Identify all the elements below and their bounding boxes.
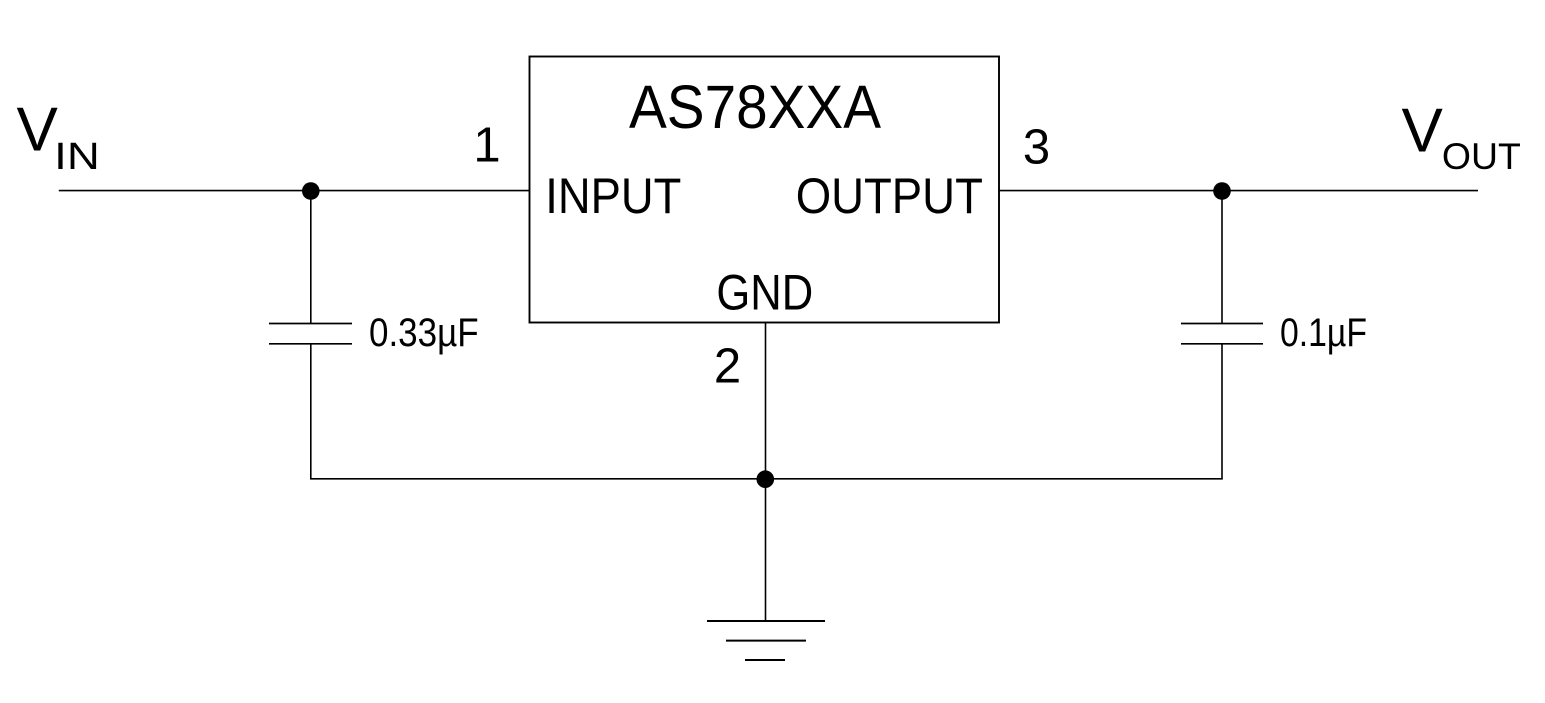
- svg-text:2: 2: [714, 339, 741, 393]
- junction node at input: [302, 182, 320, 200]
- svg-text:1: 1: [473, 119, 500, 173]
- wire ground node to ground symbol: [765, 479, 767, 621]
- ground rail wire: [310, 478, 1223, 480]
- wire C2 to ground rail: [1221, 344, 1223, 479]
- wire input node down to C1: [310, 191, 312, 324]
- wire pin 3 to VOUT: [999, 190, 1478, 192]
- junction node at output: [1213, 182, 1231, 200]
- capacitor C1 (0.33µF) plates: [269, 324, 352, 344]
- svg-text:3: 3: [1023, 121, 1050, 175]
- capacitor C2 (0.1µF) plates: [1181, 324, 1263, 344]
- svg-text:0.33µF: 0.33µF: [369, 311, 479, 355]
- node VIN label: [17, 96, 100, 179]
- regulator U1 body (AS78XXA box): [530, 57, 1000, 323]
- svg-text:OUTPUT: OUTPUT: [796, 168, 983, 224]
- wire VIN to pin 1: [59, 190, 530, 192]
- wire C1 to ground rail: [310, 344, 312, 479]
- ground: [707, 621, 825, 660]
- svg-text:V: V: [17, 96, 59, 165]
- node VOUT label: [1402, 97, 1521, 178]
- svg-text:V: V: [1402, 97, 1444, 166]
- svg-text:INPUT: INPUT: [545, 168, 681, 224]
- svg-text:IN: IN: [54, 136, 100, 178]
- svg-text:AS78XXA: AS78XXA: [629, 73, 881, 142]
- svg-text:OUT: OUT: [1442, 136, 1521, 177]
- svg-text:GND: GND: [716, 265, 813, 321]
- wire output node down to C2: [1221, 191, 1223, 324]
- svg-text:0.1µF: 0.1µF: [1280, 311, 1367, 355]
- wire pin 2 (GND) down to ground rail: [765, 323, 767, 480]
- junction node at ground rail: [757, 470, 775, 488]
